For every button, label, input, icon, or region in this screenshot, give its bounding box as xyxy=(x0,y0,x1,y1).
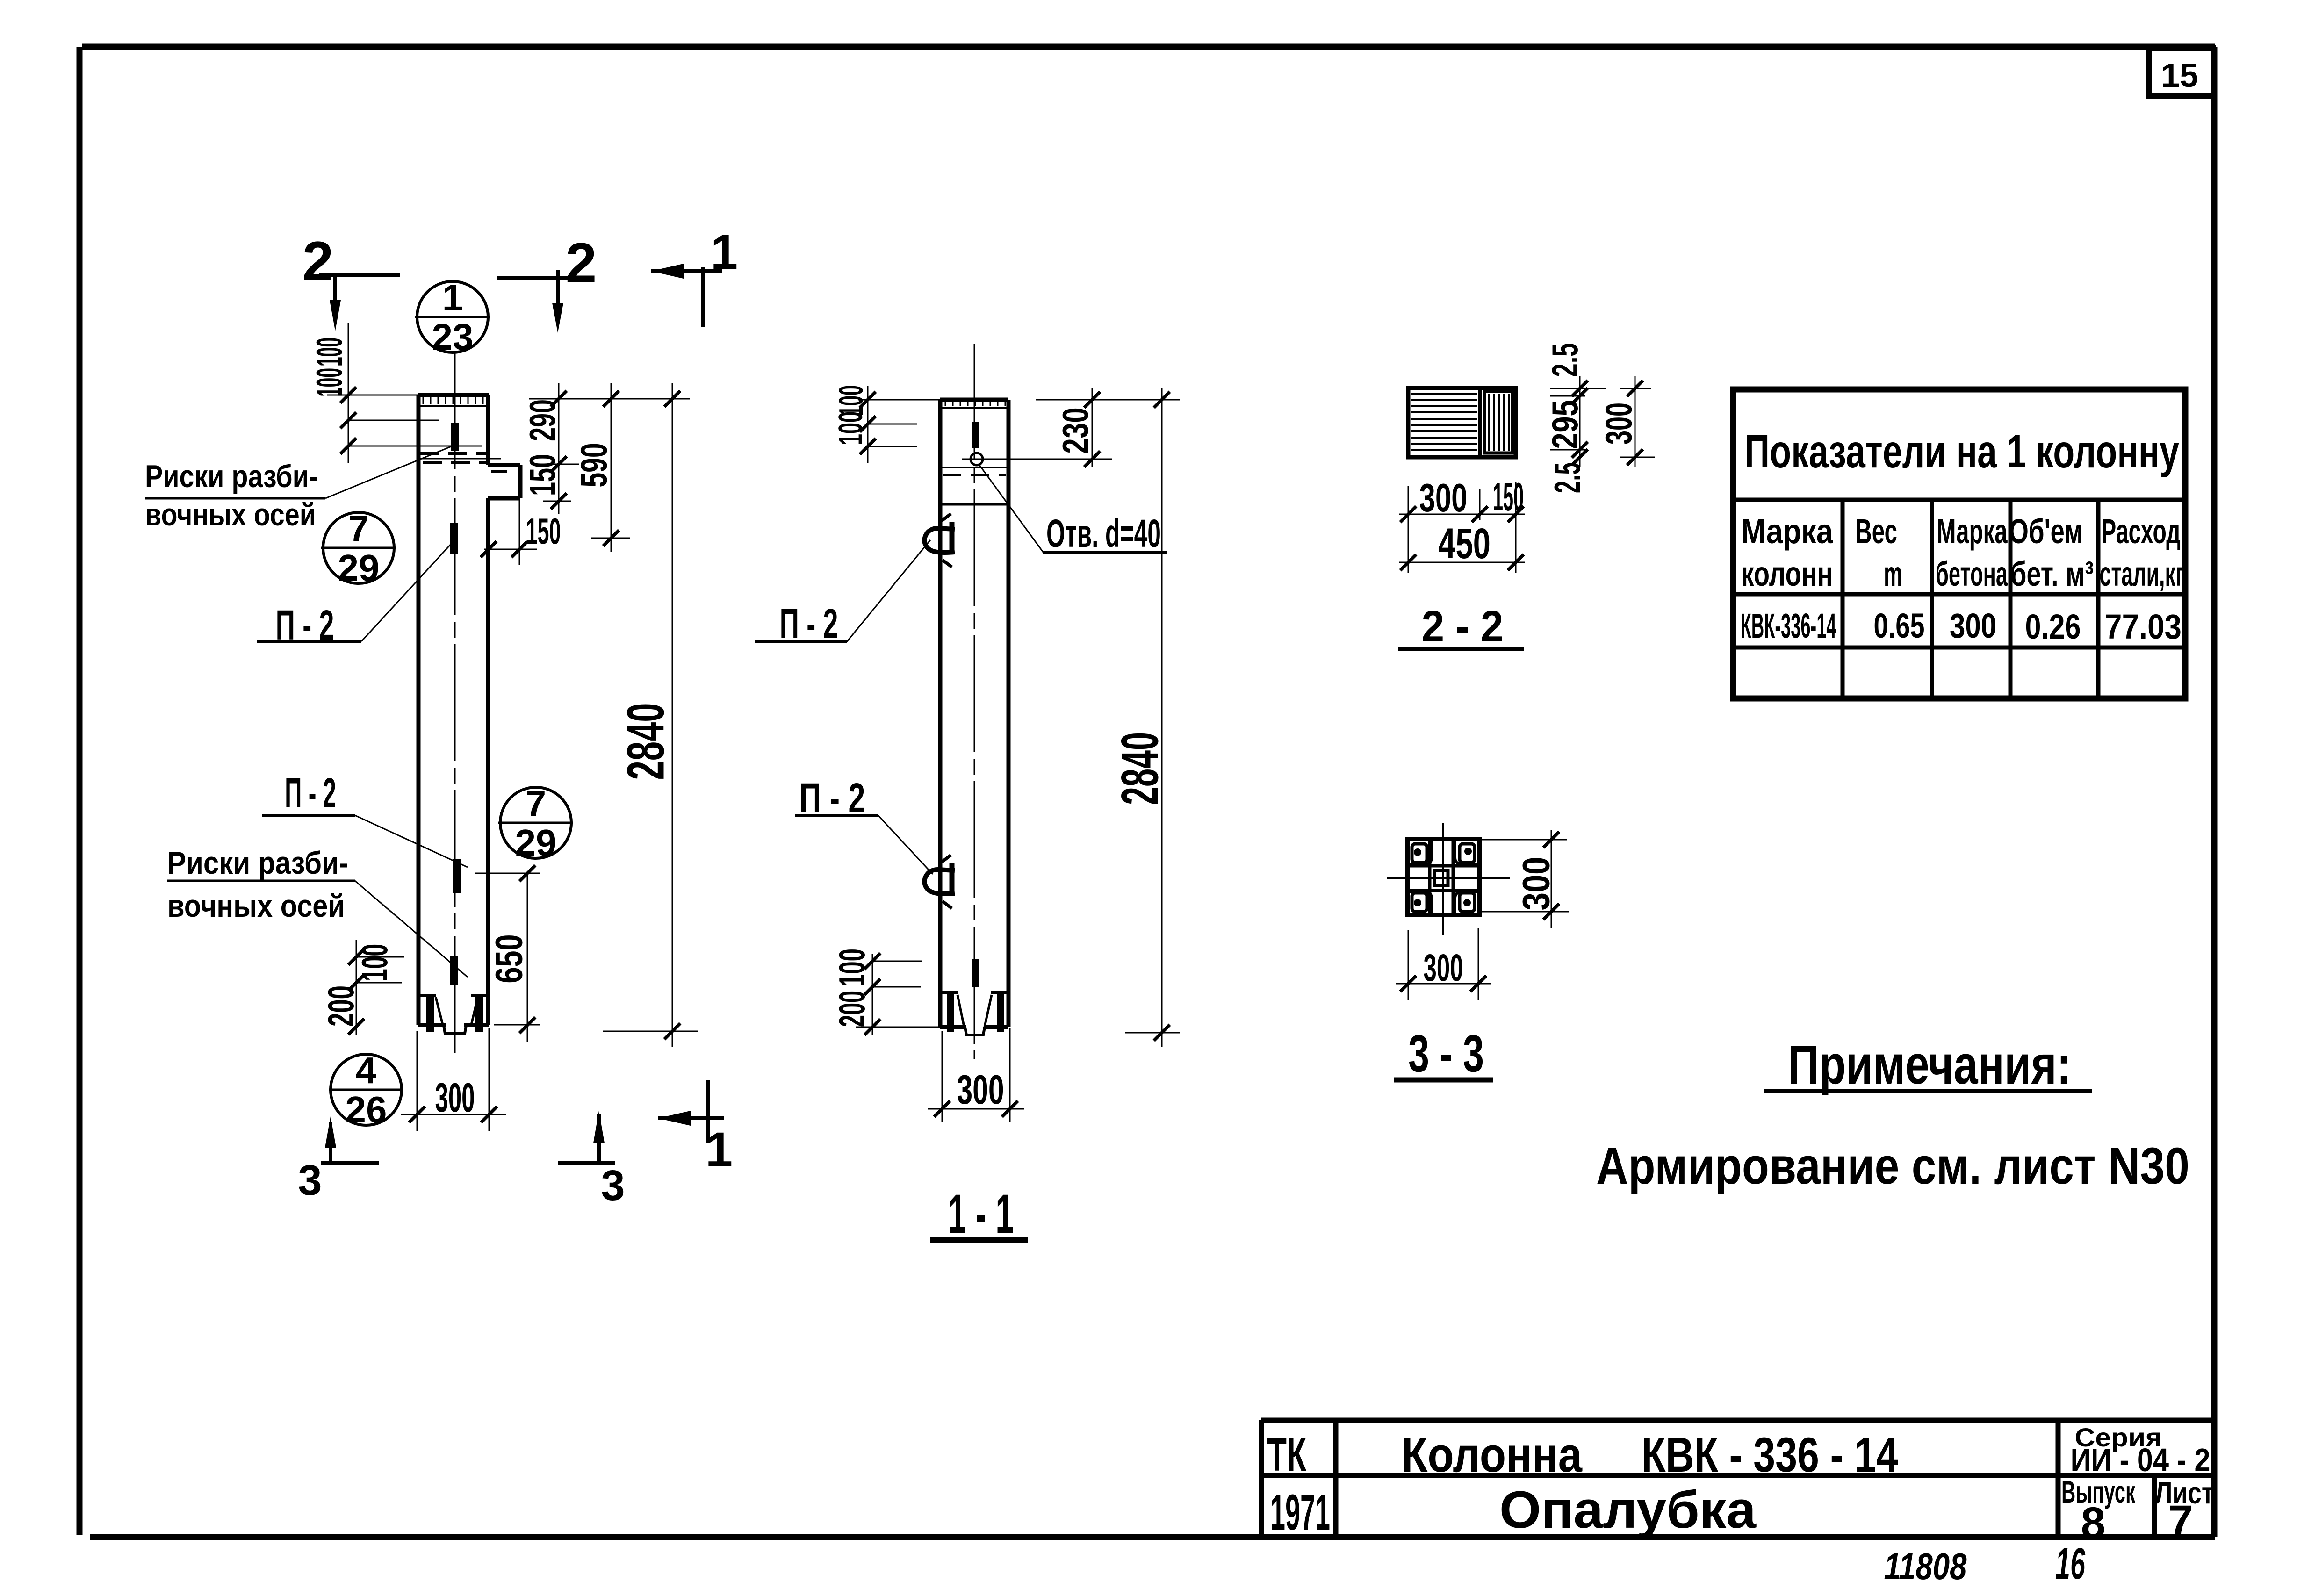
title block name kolonna xyxy=(1401,1428,1898,1482)
dimension 2840 (left view right) xyxy=(603,383,698,1047)
label P-2 (1-1 upper) xyxy=(755,540,930,647)
svg-text:200: 200 xyxy=(831,991,872,1027)
svg-text:Вес: Вес xyxy=(1855,512,1897,551)
dimension 450 (section 2-2) xyxy=(1399,520,1525,570)
dimension 100/100 (1-1 top left) xyxy=(832,385,940,463)
title block TK xyxy=(1267,1429,1307,1481)
section title 3-3 xyxy=(1394,1024,1493,1083)
title block frame xyxy=(1261,1420,2215,1537)
notes heading xyxy=(1764,1034,2092,1096)
column foot (section 1-1) xyxy=(940,992,1008,1035)
svg-text:3 - 3: 3 - 3 xyxy=(1408,1024,1484,1083)
title block vypusk 8 xyxy=(2061,1474,2136,1548)
section mark 1 (bottom) xyxy=(658,1080,733,1177)
svg-text:29: 29 xyxy=(515,822,557,863)
svg-text:590: 590 xyxy=(573,443,615,488)
svg-text:7: 7 xyxy=(2168,1496,2193,1546)
dimension 100/200 (1-1 bottom left) xyxy=(831,949,940,1035)
dimension 590 (left view right) xyxy=(573,383,631,552)
dimension 300 (section 3-3 right) xyxy=(1482,830,1569,928)
svg-text:100: 100 xyxy=(831,949,872,987)
svg-text:П - 2: П - 2 xyxy=(285,770,336,817)
svg-text:вочных осей: вочных осей xyxy=(167,888,345,924)
svg-text:2840: 2840 xyxy=(617,703,675,780)
svg-text:290: 290 xyxy=(522,399,563,441)
setting-out mark riska (1-1 top) xyxy=(972,422,979,448)
svg-text:2.5: 2.5 xyxy=(1547,462,1588,493)
section title 2-2 xyxy=(1398,602,1524,651)
svg-text:3: 3 xyxy=(601,1162,625,1209)
svg-text:КВК-336-14: КВК-336-14 xyxy=(1741,606,1836,645)
svg-text:100: 100 xyxy=(354,944,395,981)
svg-text:ТК: ТК xyxy=(1267,1429,1307,1481)
svg-text:Армирование см. лист N30: Армирование см. лист N30 xyxy=(1596,1137,2189,1195)
label P-2 (left view lower) xyxy=(262,770,468,867)
svg-text:Опалубка: Опалубка xyxy=(1499,1481,1757,1539)
svg-text:2840: 2840 xyxy=(1111,732,1169,805)
dimension 300 (section 3-3 below) xyxy=(1396,928,1491,1000)
svg-text:100: 100 xyxy=(832,411,870,445)
svg-text:230: 230 xyxy=(1055,408,1096,454)
indicators table frame xyxy=(1733,389,2185,698)
svg-text:вочных осей: вочных осей xyxy=(145,497,316,532)
svg-text:100: 100 xyxy=(309,368,350,397)
svg-text:23: 23 xyxy=(432,316,474,358)
label P-2 (left view upper) xyxy=(257,542,453,649)
dimension 300 (section 2-2 right) xyxy=(1598,376,1656,467)
title block seriya xyxy=(2071,1423,2211,1478)
table header marka betona xyxy=(1936,512,2008,593)
svg-text:Показатели на 1 колонну: Показатели на 1 колонну xyxy=(1744,425,2179,478)
svg-text:Отв. d=40: Отв. d=40 xyxy=(1046,511,1161,555)
svg-text:Марка: Марка xyxy=(1937,512,2008,551)
section 3-3 formwork plan xyxy=(1387,823,1510,935)
svg-text:бет. м³: бет. м³ xyxy=(2010,554,2094,593)
setting-out mark riska (1-1 bottom) xyxy=(972,959,979,987)
title block list 7 xyxy=(2155,1475,2214,1546)
svg-text:2.5: 2.5 xyxy=(1544,343,1585,377)
lifting loop P-2 lower (1-1) xyxy=(924,855,955,908)
column axis line (section 1-1) xyxy=(974,344,975,1059)
svg-text:300: 300 xyxy=(957,1066,1004,1113)
svg-text:2: 2 xyxy=(566,231,597,294)
section 2-2 formwork plan xyxy=(1408,388,1516,457)
svg-text:стали,кг: стали,кг xyxy=(2100,554,2184,593)
svg-text:295: 295 xyxy=(1544,400,1585,449)
dimension 300/150 (section 2-2 below) xyxy=(1399,475,1525,573)
formwork top band hatch (section 1-1) xyxy=(940,401,1008,408)
svg-text:450: 450 xyxy=(1438,520,1491,568)
svg-text:бетона: бетона xyxy=(1936,554,2008,593)
dimension 650 (left view) xyxy=(475,865,540,1042)
svg-text:300: 300 xyxy=(1419,476,1468,520)
svg-text:300: 300 xyxy=(1598,403,1640,445)
section mark 3 (bottom left) xyxy=(298,1116,379,1204)
svg-text:2: 2 xyxy=(302,230,334,293)
svg-text:26: 26 xyxy=(346,1089,387,1130)
table header marka kolonn xyxy=(1741,512,1834,593)
column outline (left view) xyxy=(418,395,520,1025)
detail circle 7/29 (lower) xyxy=(498,783,573,863)
lifting loop P-2 upper (1-1) xyxy=(924,514,955,567)
section mark 2 (top second) xyxy=(497,231,597,333)
label P-2 (1-1 lower) xyxy=(795,775,933,874)
svg-text:3: 3 xyxy=(298,1157,322,1204)
dimension 100/100 (left view top) xyxy=(309,323,482,463)
svg-text:ИИ - 04 - 2: ИИ - 04 - 2 xyxy=(2071,1442,2211,1478)
formwork top band hatch (left view) xyxy=(418,397,489,406)
axis circle 1/23 xyxy=(415,277,490,358)
section mark 2 (top left) xyxy=(302,230,400,331)
table data row xyxy=(1741,606,2182,646)
svg-text:колонн: колонн xyxy=(1741,554,1833,593)
svg-text:1: 1 xyxy=(442,277,463,318)
table header ves xyxy=(1855,512,1902,593)
svg-text:300: 300 xyxy=(1950,606,1996,645)
svg-text:Марка: Марка xyxy=(1741,512,1834,551)
svg-text:300: 300 xyxy=(1515,857,1558,911)
svg-text:150: 150 xyxy=(1493,475,1524,519)
note text xyxy=(1596,1137,2189,1195)
svg-text:650: 650 xyxy=(488,935,531,984)
svg-text:2 - 2: 2 - 2 xyxy=(1422,602,1504,651)
dimension 100/200 (left view bottom) xyxy=(320,940,404,1035)
svg-text:11808: 11808 xyxy=(1884,1546,1967,1587)
dimension 2840 (1-1) xyxy=(1111,388,1181,1047)
label riski razbivochnykh osey (upper) xyxy=(145,446,451,532)
svg-text:100: 100 xyxy=(309,338,350,367)
svg-text:m: m xyxy=(1884,554,1902,593)
title block opalubka xyxy=(1499,1481,1757,1539)
dimension 150 (corbel projection) xyxy=(481,498,561,565)
label otv d40 xyxy=(979,465,1167,555)
svg-text:150: 150 xyxy=(522,454,563,496)
setting-out mark riska 1 (left view top) xyxy=(451,423,459,451)
svg-text:КВК - 336 - 14: КВК - 336 - 14 xyxy=(1642,1428,1898,1482)
title block year 1971 xyxy=(1270,1484,1330,1540)
lifting loop end view P-2 upper (left view) xyxy=(450,523,458,554)
svg-text:Риски разби-: Риски разби- xyxy=(167,845,348,881)
svg-text:77.03: 77.03 xyxy=(2105,607,2182,646)
table header raskhod stali xyxy=(2100,512,2184,593)
column axis line (left view) xyxy=(454,352,456,1058)
detail circle 4/26 xyxy=(329,1050,403,1130)
svg-text:200: 200 xyxy=(320,985,361,1027)
setting-out mark riska 2 (left view bottom) xyxy=(450,956,458,985)
sheet number box 15 xyxy=(2149,48,2213,96)
svg-text:7: 7 xyxy=(526,783,547,824)
svg-text:Колонна: Колонна xyxy=(1401,1428,1583,1482)
svg-text:15: 15 xyxy=(2161,57,2198,94)
svg-text:150: 150 xyxy=(526,510,561,552)
label riski razbivochnykh osey (lower) xyxy=(167,845,468,977)
svg-text:Расход: Расход xyxy=(2101,512,2181,551)
svg-text:1 - 1: 1 - 1 xyxy=(948,1183,1014,1245)
dimension 300 (left view bottom) xyxy=(401,1028,506,1131)
svg-text:0.65: 0.65 xyxy=(1874,606,1925,645)
svg-text:4: 4 xyxy=(356,1050,377,1091)
hole otv d40 xyxy=(962,453,1112,465)
hidden dashed lines at column head (left view) xyxy=(420,453,515,471)
svg-text:Об'ем: Об'ем xyxy=(2009,512,2083,551)
svg-text:16: 16 xyxy=(2055,1539,2086,1589)
dimension 300 (1-1 bottom) xyxy=(928,1028,1024,1122)
column outline (section 1-1) xyxy=(940,400,1008,1027)
svg-text:300: 300 xyxy=(435,1074,475,1121)
column foot (left view) xyxy=(418,996,489,1034)
svg-text:Примечания:: Примечания: xyxy=(1788,1034,2071,1096)
detail circle 7/29 (upper) xyxy=(321,508,396,589)
svg-text:Риски разби-: Риски разби- xyxy=(145,459,318,494)
view title 1-1 xyxy=(930,1183,1028,1245)
svg-text:300: 300 xyxy=(1424,947,1463,989)
section mark 1 (top) xyxy=(651,225,738,327)
dimension 230 (1-1) xyxy=(1036,388,1180,467)
svg-text:29: 29 xyxy=(338,547,380,589)
section mark 3 (bottom middle) xyxy=(558,1111,625,1209)
table header obem bet xyxy=(2009,512,2094,593)
dimension 290/150 (left view right) xyxy=(522,383,690,514)
svg-text:1971: 1971 xyxy=(1270,1484,1330,1540)
table title xyxy=(1744,425,2179,478)
svg-text:7: 7 xyxy=(348,508,369,549)
svg-text:0.26: 0.26 xyxy=(2025,607,2081,646)
handwritten inventory number xyxy=(1884,1539,2086,1589)
head lines and hidden line (section 1-1) xyxy=(940,467,1008,504)
dimension 2.5/295/2.5 (section 2-2) xyxy=(1544,343,1606,494)
lifting loop end view P-2 lower (left view) xyxy=(453,859,461,893)
